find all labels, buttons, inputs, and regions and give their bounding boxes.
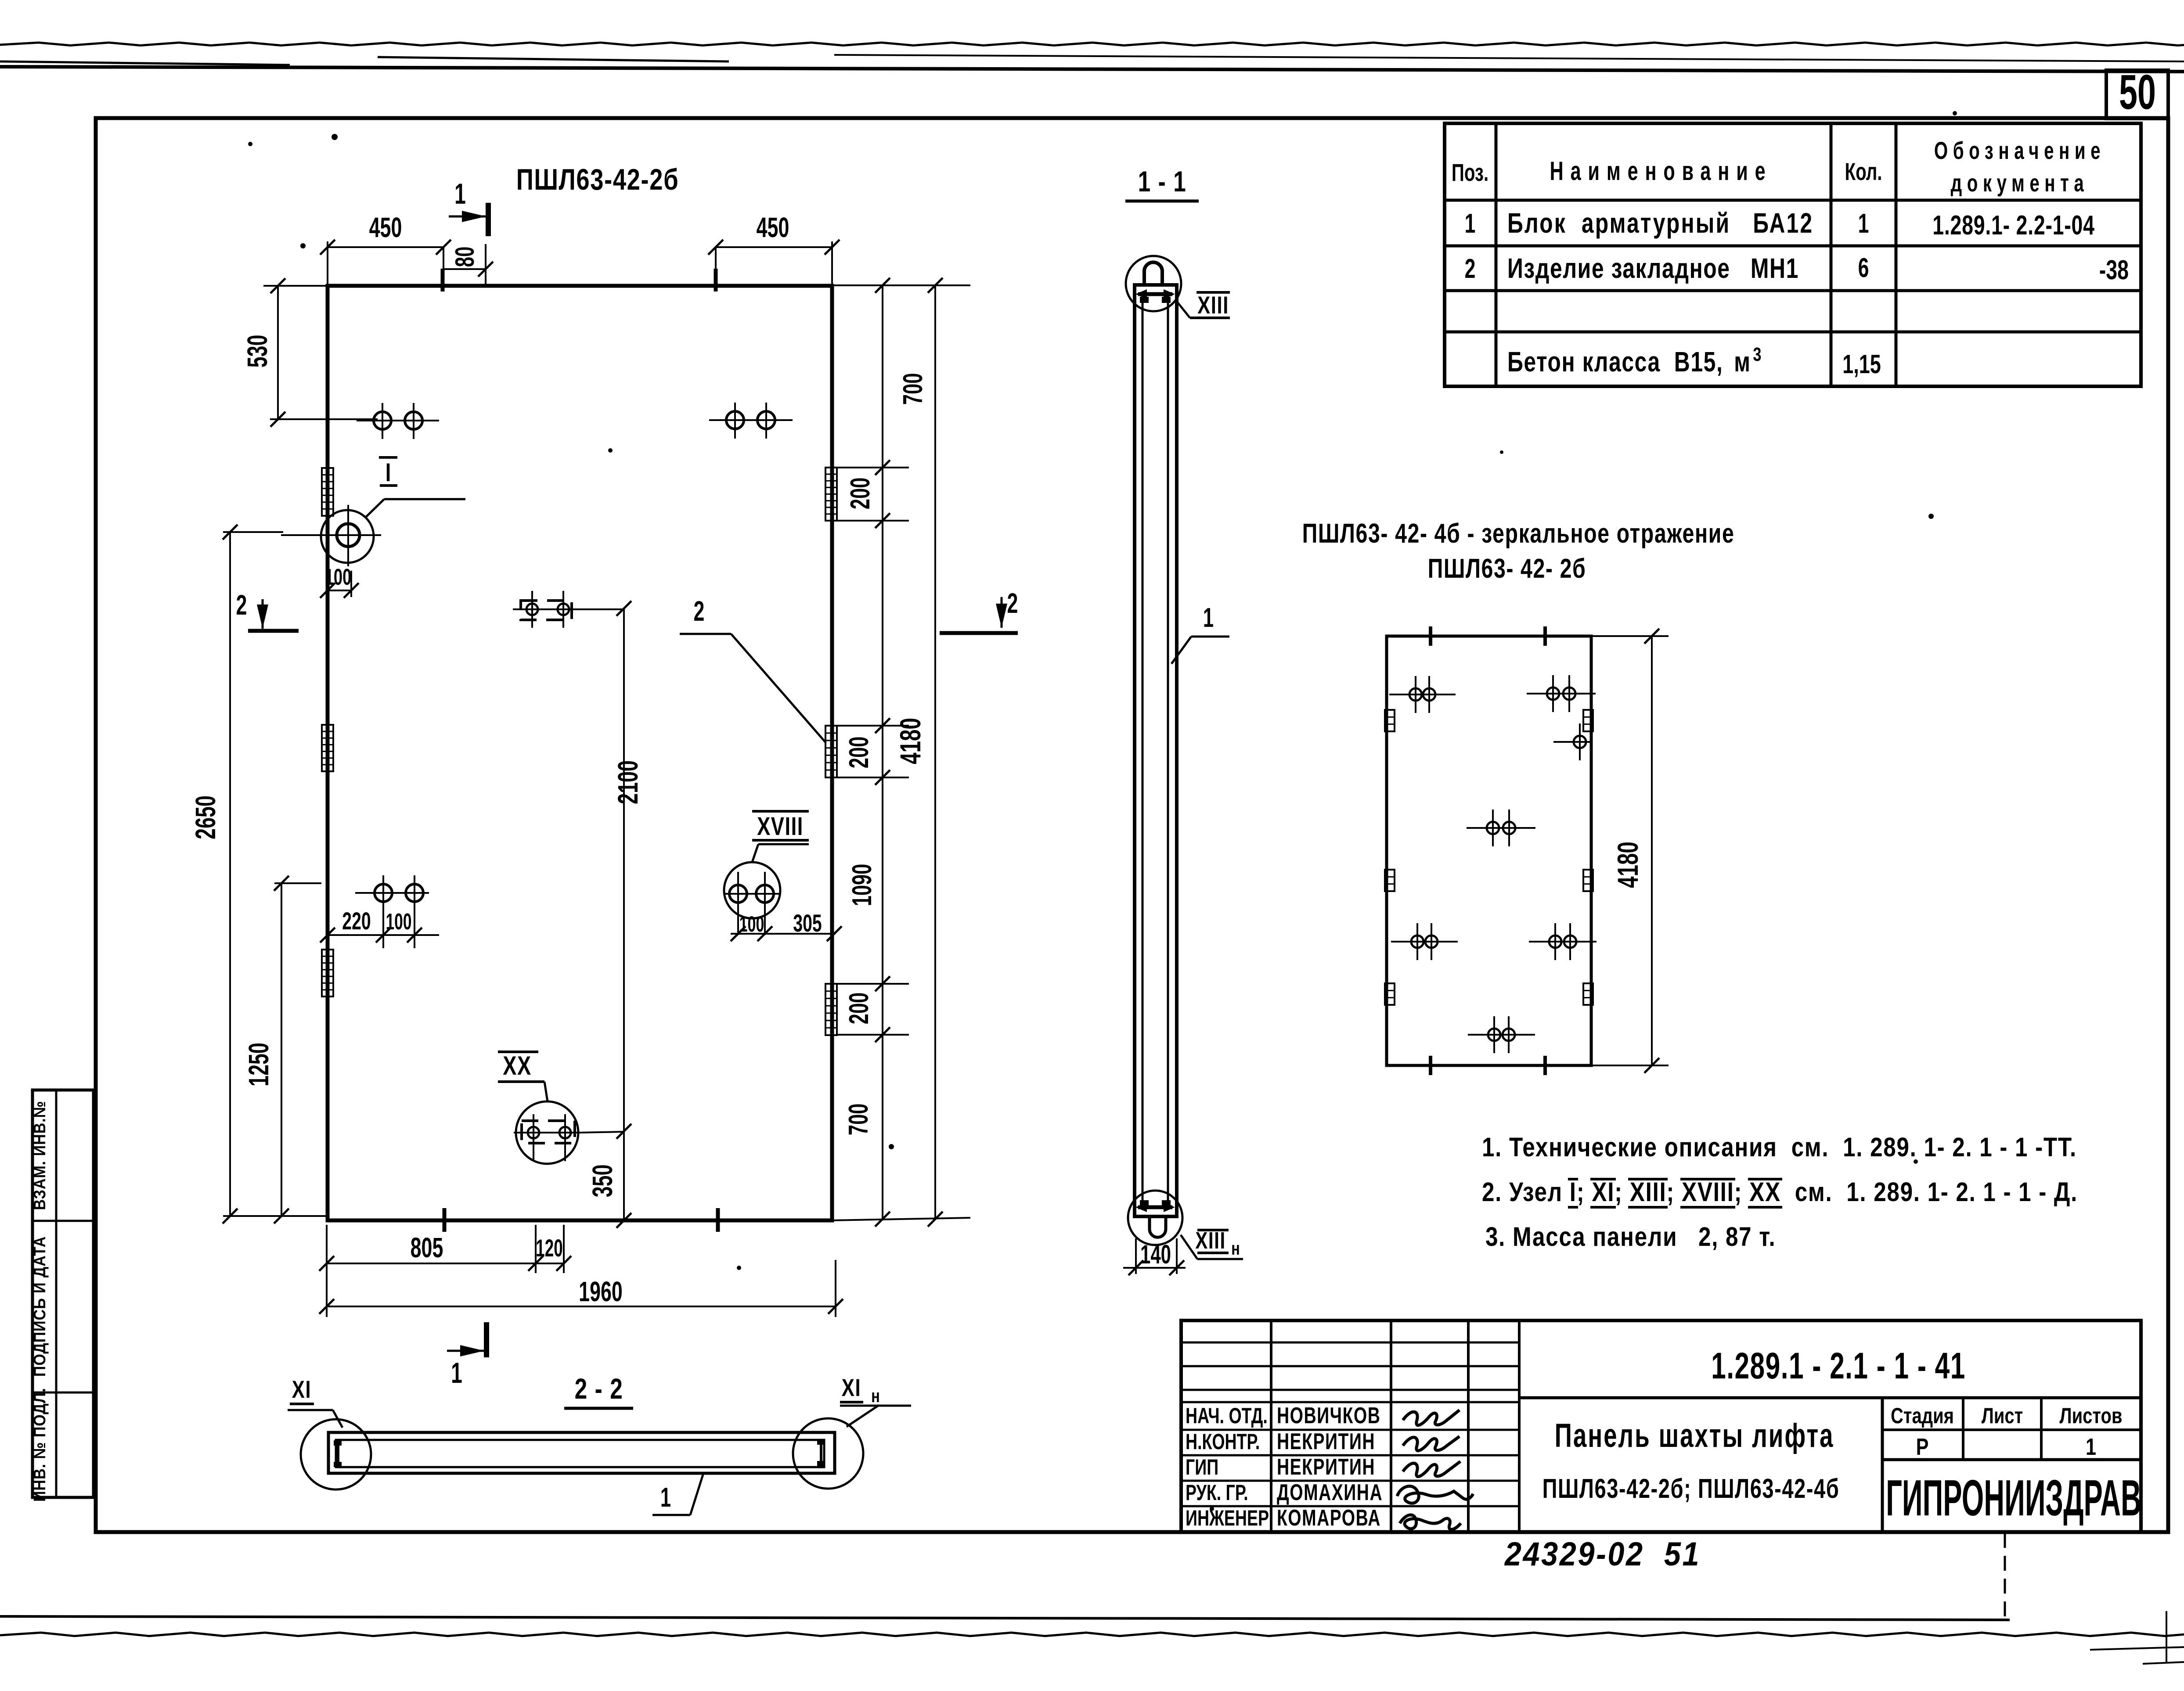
svg-text:1: 1: [1465, 209, 1476, 239]
svg-text:ДОМАХИНА: ДОМАХИНА: [1277, 1479, 1383, 1505]
svg-text:XIII: XIII: [1197, 291, 1229, 319]
svg-text:2: 2: [694, 595, 705, 627]
svg-text:1: 1: [2086, 1434, 2096, 1461]
svg-text:2. Узел I; XI; XIII; XVIII; XX: 2. Узел I; XI; XIII; XVIII; XX см. 1. 28…: [1482, 1177, 2078, 1207]
svg-text:-38: -38: [2099, 254, 2129, 285]
svg-text:805: 805: [411, 1232, 443, 1263]
svg-text:документа: документа: [1951, 170, 2089, 197]
svg-text:2650: 2650: [190, 795, 221, 839]
svg-text:НОВИЧКОВ: НОВИЧКОВ: [1277, 1402, 1380, 1428]
svg-text:1090: 1090: [847, 864, 877, 907]
svg-text:ПШЛ63- 42- 4б - зеркальное отр: ПШЛ63- 42- 4б - зеркальное отражение: [1302, 518, 1735, 548]
svg-text:ПОДПИСЬ И ДАТА: ПОДПИСЬ И ДАТА: [30, 1236, 49, 1377]
svg-text:1: 1: [660, 1483, 671, 1513]
svg-text:2: 2: [236, 589, 247, 621]
svg-text:РУК. ГР.: РУК. ГР.: [1186, 1481, 1248, 1505]
svg-text:4180: 4180: [894, 718, 926, 764]
svg-text:80: 80: [450, 247, 479, 267]
svg-text:н: н: [1231, 1238, 1240, 1259]
svg-text:Изделие закладное МН1: Изделие закладное МН1: [1507, 253, 1799, 284]
svg-text:1: 1: [1858, 209, 1869, 239]
svg-text:120: 120: [536, 1234, 563, 1262]
svg-text:700: 700: [844, 1104, 874, 1135]
svg-text:2: 2: [1465, 254, 1476, 284]
svg-text:2100: 2100: [612, 760, 644, 804]
svg-text:Поз.: Поз.: [1452, 159, 1488, 187]
svg-text:ВЗАМ. ИНВ.№: ВЗАМ. ИНВ.№: [30, 1101, 49, 1210]
svg-text:Наименование: Наименование: [1550, 157, 1773, 186]
svg-text:ИНЖЕНЕР: ИНЖЕНЕР: [1186, 1506, 1269, 1530]
svg-text:1: 1: [454, 178, 466, 210]
svg-text:2 - 2: 2 - 2: [575, 1372, 623, 1405]
svg-text:50: 50: [2119, 65, 2156, 120]
svg-text:ПШЛ63-42-2б: ПШЛ63-42-2б: [516, 163, 679, 196]
svg-text:Обозначение: Обозначение: [1934, 137, 2105, 165]
svg-text:Р: Р: [1916, 1434, 1929, 1461]
svg-text:ГИПРОНИИЗДРАВ: ГИПРОНИИЗДРАВ: [1886, 1469, 2141, 1526]
svg-text:XI: XI: [292, 1376, 311, 1403]
svg-text:I: I: [386, 459, 391, 487]
svg-text:1.289.1- 2.2-1-04: 1.289.1- 2.2-1-04: [1932, 209, 2094, 240]
svg-text:XVIII: XVIII: [757, 813, 804, 841]
svg-text:1: 1: [451, 1357, 462, 1389]
svg-text:Блок арматурный БА12: Блок арматурный БА12: [1507, 208, 1813, 239]
svg-text:4180: 4180: [1612, 842, 1644, 888]
svg-text:1,15: 1,15: [1842, 350, 1881, 379]
svg-text:100: 100: [325, 564, 352, 590]
svg-text:НАЧ. ОТД.: НАЧ. ОТД.: [1186, 1404, 1268, 1428]
svg-text:XIII: XIII: [1195, 1227, 1225, 1254]
svg-text:ПШЛ63-42-2б; ПШЛ63-42-4б: ПШЛ63-42-2б; ПШЛ63-42-4б: [1542, 1473, 1840, 1504]
svg-text:XI: XI: [842, 1374, 861, 1401]
svg-text:305: 305: [793, 910, 822, 937]
svg-text:450: 450: [757, 212, 789, 243]
svg-text:Листов: Листов: [2060, 1403, 2123, 1428]
svg-text:700: 700: [898, 373, 928, 405]
svg-text:НЕКРИТИН: НЕКРИТИН: [1277, 1428, 1375, 1454]
svg-text:530: 530: [241, 335, 273, 368]
svg-text:1250: 1250: [243, 1043, 274, 1087]
svg-text:Бетон класса В15, м3: Бетон класса В15, м3: [1507, 344, 1762, 378]
svg-text:100: 100: [739, 912, 764, 937]
svg-text:Кол.: Кол.: [1845, 158, 1882, 186]
svg-text:1.289.1 - 2.1 - 1 - 41: 1.289.1 - 2.1 - 1 - 41: [1711, 1345, 1966, 1386]
svg-text:1: 1: [1203, 603, 1214, 633]
svg-text:ГИП: ГИП: [1186, 1455, 1218, 1479]
svg-text:ПШЛ63- 42- 2б: ПШЛ63- 42- 2б: [1428, 553, 1586, 583]
svg-text:450: 450: [369, 212, 402, 243]
svg-text:3. Масса панели 2, 87 т.: 3. Масса панели 2, 87 т.: [1485, 1222, 1776, 1252]
svg-text:1 - 1: 1 - 1: [1138, 165, 1187, 198]
svg-text:1. Технические описания см.: 1. Технические описания см. 1. 289. 1- 2…: [1482, 1132, 2077, 1162]
svg-text:КОМАРОВА: КОМАРОВА: [1277, 1504, 1381, 1530]
svg-text:200: 200: [844, 737, 874, 768]
svg-text:6: 6: [1858, 253, 1869, 283]
svg-text:200: 200: [844, 993, 874, 1024]
svg-text:1960: 1960: [579, 1276, 623, 1307]
svg-text:Н.КОНТР.: Н.КОНТР.: [1186, 1430, 1260, 1454]
svg-text:н: н: [871, 1385, 880, 1406]
svg-text:24329-02 51: 24329-02 51: [1504, 1536, 1701, 1573]
svg-text:НЕКРИТИН: НЕКРИТИН: [1277, 1454, 1375, 1479]
svg-text:Панель шахты лифта: Панель шахты лифта: [1555, 1417, 1834, 1454]
svg-text:Стадия: Стадия: [1891, 1403, 1954, 1428]
svg-text:200: 200: [846, 478, 876, 509]
svg-text:2: 2: [1007, 587, 1018, 619]
svg-text:140: 140: [1140, 1240, 1171, 1269]
svg-text:100: 100: [386, 909, 412, 934]
svg-text:220: 220: [342, 907, 371, 935]
svg-text:Лист: Лист: [1982, 1403, 2023, 1428]
svg-text:ИНВ. № ПОДЛ.: ИНВ. № ПОДЛ.: [30, 1388, 49, 1502]
svg-text:350: 350: [587, 1165, 618, 1198]
svg-text:XX: XX: [503, 1051, 532, 1080]
